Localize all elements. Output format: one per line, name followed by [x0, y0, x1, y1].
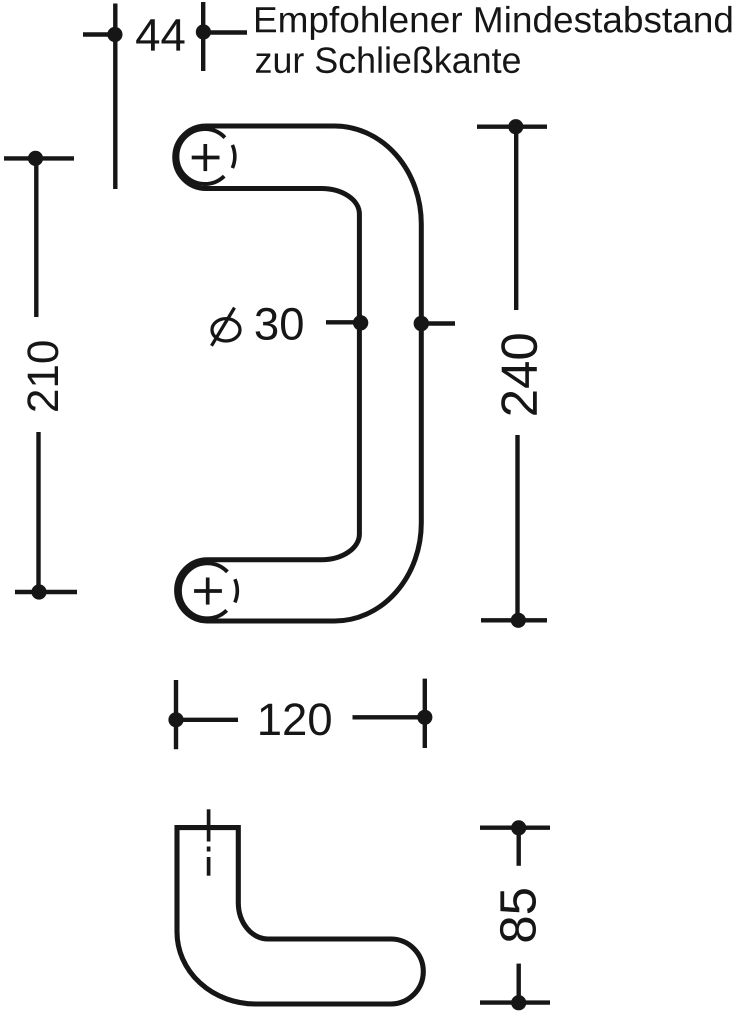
- side view tube: [177, 828, 423, 1004]
- dim 240 top tick: [477, 124, 547, 128]
- dim 120 label: [260, 703, 331, 735]
- dia leader right line: [423, 321, 455, 325]
- dim 210 bottom tick: [15, 590, 77, 594]
- dim 44 right tick line: [201, 2, 205, 71]
- dim 85 line upper: [517, 828, 521, 866]
- dia leader right dot: [414, 316, 429, 331]
- dim 240 line lower: [515, 435, 519, 620]
- top post circle: [177, 129, 224, 184]
- dim 85 line lower: [517, 964, 521, 1003]
- dia symbol: [212, 308, 241, 346]
- dim 210 top tick: [4, 156, 74, 160]
- handle outline (tube): [175, 126, 422, 621]
- dim 44 label: [136, 19, 184, 50]
- dim 85 top tick: [480, 826, 550, 830]
- dim 240 bottom dot: [511, 613, 526, 628]
- bottom post cross: [194, 578, 222, 605]
- dim 44 left dot: [107, 27, 122, 42]
- dim 240 label: [501, 334, 537, 415]
- dia leader left dot: [353, 315, 368, 330]
- dim 85 top dot: [511, 820, 526, 835]
- dim 120 left dot: [168, 712, 183, 727]
- dia 30 label: [256, 308, 303, 340]
- dim 120 left tick: [174, 680, 178, 749]
- dim 120 right tick: [423, 679, 427, 748]
- top post cross: [192, 144, 220, 171]
- dim 44 right dot: [196, 24, 211, 39]
- side view centerline (dash-dot): [207, 809, 211, 875]
- dim 240 line upper: [514, 127, 518, 310]
- dim 120 left line: [176, 718, 238, 722]
- dim 120 right line: [353, 715, 425, 719]
- dim 210 bottom dot: [31, 584, 46, 599]
- dim 44 right extension line: [203, 30, 247, 34]
- dim 85 label: [500, 889, 536, 941]
- dim 44 left tick line: [113, 4, 117, 190]
- bottom post circle: [180, 563, 227, 618]
- dim 210 line lower: [36, 432, 40, 592]
- dim 120 right dot: [417, 710, 432, 725]
- dim 240 bottom tick: [481, 618, 547, 622]
- note text line 2: [256, 46, 520, 73]
- dim 240 top dot: [508, 119, 523, 134]
- dim 210 line upper: [34, 158, 38, 317]
- dim 85 bottom dot: [511, 995, 526, 1010]
- dim 44 left extension line: [83, 32, 115, 36]
- bottom post break arc: [235, 579, 237, 602]
- dia leader left line: [326, 320, 358, 324]
- top post break arc: [232, 145, 234, 168]
- note text line 1: [256, 6, 732, 40]
- dim 210 label: [27, 341, 58, 410]
- dim 85 bottom tick: [480, 1000, 550, 1004]
- dim 210 top dot: [28, 151, 43, 166]
